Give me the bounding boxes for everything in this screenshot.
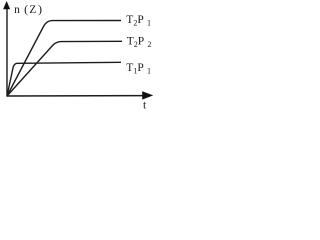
- curve T2P2: [7, 41, 122, 96]
- y-axis: [3, 1, 10, 97]
- svg-text:n(Z): n(Z): [14, 2, 42, 16]
- curve T2P1: [7, 21, 121, 97]
- curve T1P1: [7, 62, 121, 96]
- svg-text:T2P2: T2P2: [127, 36, 152, 49]
- svg-text:T2P1: T2P1: [126, 14, 151, 27]
- svg-text:T1P1: T1P1: [126, 62, 151, 75]
- svg-text:t: t: [143, 100, 147, 112]
- x-axis: [7, 91, 154, 99]
